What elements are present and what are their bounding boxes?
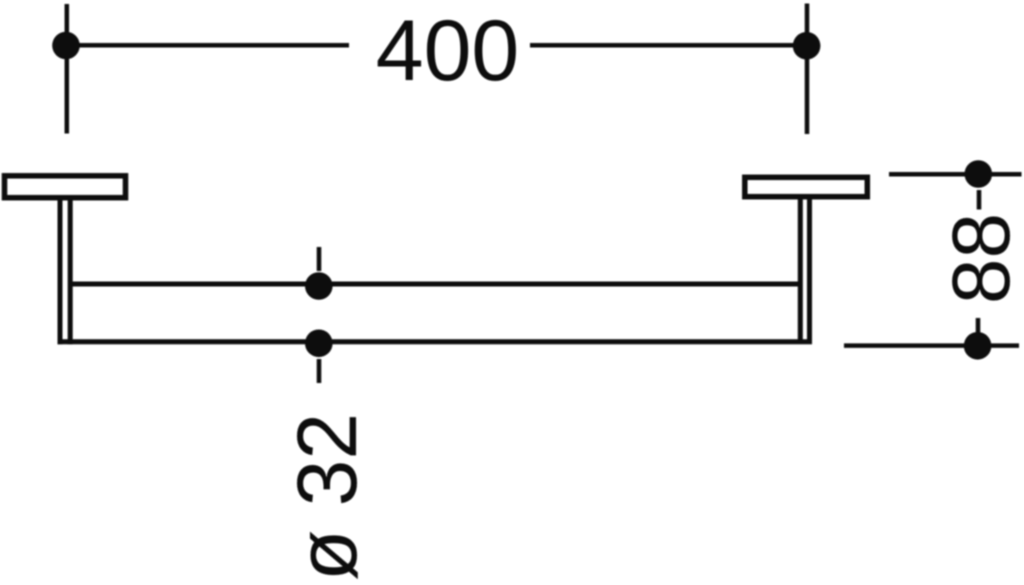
- right wall plate: [745, 177, 868, 196]
- bar centre dot on top line: [305, 272, 333, 300]
- dimension 400 left extension line: [65, 4, 70, 134]
- left wall plate: [5, 176, 126, 198]
- dimension 88 tick below top dot: [977, 190, 982, 210]
- left post front line: [58, 199, 63, 344]
- dimension 400 left dot: [52, 32, 80, 60]
- dimension 400 line left segment: [66, 43, 349, 48]
- right post front line: [798, 198, 803, 344]
- dimension 400 right extension line: [805, 4, 810, 135]
- svg-text:88: 88: [936, 213, 1024, 304]
- bar tube bottom line: [58, 339, 813, 344]
- right post back line: [807, 198, 812, 344]
- dimension 88 bottom line: [844, 343, 1019, 348]
- bar centre dot on bottom line: [305, 330, 333, 358]
- dimension 400 line right segment: [530, 43, 806, 48]
- svg-text:ø 32: ø 32: [280, 413, 374, 581]
- bar centre tick below: [317, 359, 322, 383]
- dimension 88 tick above bottom dot: [976, 318, 981, 335]
- bar centre tick above: [317, 247, 322, 271]
- svg-text:400: 400: [376, 3, 520, 99]
- bar tube top line: [70, 282, 801, 287]
- left post back line: [68, 199, 73, 344]
- dimension 400 right dot: [793, 32, 821, 60]
- dimension 88 top dot: [965, 160, 993, 188]
- dimension 88 bottom dot: [964, 332, 992, 360]
- dimension 88 top line: [889, 172, 1022, 177]
